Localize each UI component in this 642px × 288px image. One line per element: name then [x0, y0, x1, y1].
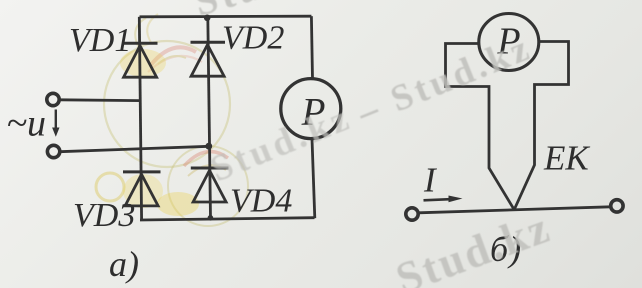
wire lower AC to right branch — [60, 146, 209, 151]
terminal left — [406, 208, 418, 220]
arrow current I — [424, 199, 451, 200]
watermark logo yellow blob over VD3 — [123, 174, 163, 208]
terminal lower AC — [47, 145, 59, 157]
junction top of VD2 leg — [204, 14, 211, 21]
wire top bus — [140, 15, 312, 18]
diode VD2 — [191, 42, 226, 76]
instrument P of circuit b — [479, 14, 539, 71]
svg-text:Stud.kz: Stud.kz — [390, 202, 558, 288]
svg-text:VD3: VD3 — [73, 197, 135, 234]
wire upper AC to left branch — [60, 98, 141, 102]
svg-text:EK: EK — [543, 139, 590, 178]
watermark logo swirl lower — [168, 146, 248, 226]
terminal right — [611, 200, 623, 212]
watermark logo small ring left — [96, 173, 124, 201]
watermark logo yellow blob near VD3 — [157, 192, 199, 216]
wire right side top (to instrument P) — [311, 16, 312, 78]
watermark logo swirl upper — [104, 14, 230, 167]
wire main current bus — [419, 207, 611, 213]
wire heater body left — [446, 44, 515, 210]
wire right branch (VD2/VD4 leg) — [208, 17, 211, 219]
diode VD3 — [123, 172, 161, 206]
svg-text:VD2: VD2 — [222, 20, 284, 57]
junction lower AC on right branch — [205, 143, 212, 150]
terminal upper AC — [47, 93, 59, 105]
wire heater body right — [514, 42, 568, 210]
svg-text:~u: ~u — [7, 103, 47, 145]
instrument P of circuit a — [281, 79, 341, 139]
diode VD4 — [191, 168, 229, 202]
svg-text:a): a) — [109, 244, 139, 284]
arrow u direction — [55, 110, 57, 130]
wire right side bottom (from instrument P) — [312, 139, 315, 218]
wire left branch (VD1/VD3 leg) — [139, 17, 141, 220]
diode VD1 — [123, 43, 158, 77]
wire bottom bus — [140, 218, 315, 220]
svg-text:I: I — [423, 161, 438, 200]
svg-text:VD4: VD4 — [230, 183, 292, 220]
svg-text:VD1: VD1 — [69, 22, 131, 59]
watermark logo yellow blob near VD1 — [120, 49, 166, 77]
junction bottom of VD4 leg — [208, 215, 214, 221]
